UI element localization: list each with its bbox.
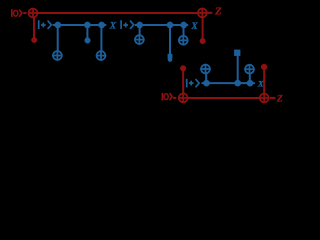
svg-text:X: X — [190, 22, 198, 32]
svg-text:Z: Z — [214, 6, 222, 17]
svg-text:X: X — [257, 78, 264, 88]
svg-text:X: X — [109, 22, 117, 32]
svg-text:Z: Z — [276, 93, 283, 104]
